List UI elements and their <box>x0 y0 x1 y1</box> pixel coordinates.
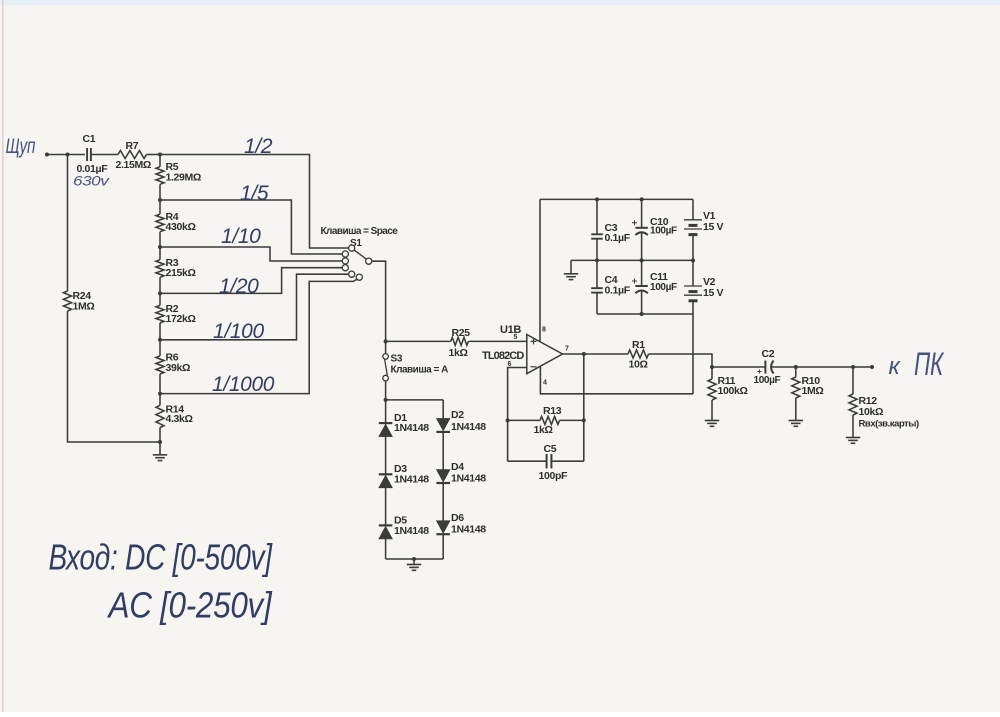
node: mid rail C11 <box>640 258 644 262</box>
wire S3 to diode network <box>385 381 387 400</box>
svg-text:4.3kΩ: 4.3kΩ <box>166 413 193 425</box>
wire R10 bottom <box>795 398 797 419</box>
svg-text:430kΩ: 430kΩ <box>166 221 196 233</box>
battery V2 <box>684 285 702 287</box>
svg-text:10Ω: 10Ω <box>629 359 648 371</box>
wire inverting input <box>508 368 527 462</box>
svg-text:ПК: ПК <box>914 346 945 382</box>
wire D4 to D6 <box>442 483 444 521</box>
svg-text:1N4148: 1N4148 <box>451 473 486 485</box>
svg-text:1/1000: 1/1000 <box>212 373 275 396</box>
svg-text:0.1µF: 0.1µF <box>605 285 631 297</box>
ground R11 <box>711 419 713 421</box>
ground power mid rail <box>570 260 572 273</box>
wire chain seg6 <box>159 374 161 405</box>
wire R13 left <box>508 419 540 421</box>
ground R12 <box>852 436 854 438</box>
resistor R1 <box>628 350 649 358</box>
wire op-amp output <box>563 353 629 355</box>
node: junction R24 tap <box>66 153 70 157</box>
node: tap 1/10 <box>158 245 162 249</box>
diode D2 <box>436 418 450 431</box>
wire tap 1/1000 <box>160 279 357 393</box>
resistor R13 <box>540 416 560 424</box>
svg-text:1kΩ: 1kΩ <box>449 347 468 359</box>
capacitor C11 <box>641 260 643 286</box>
wire pin4 to V- <box>540 366 693 393</box>
switch S3 top contact <box>383 354 389 360</box>
node: diode rail junction <box>384 398 388 402</box>
node: tap 1/5 <box>158 198 162 202</box>
diode D4 <box>436 470 450 483</box>
node: R13 right junction <box>582 418 586 422</box>
svg-text:R1: R1 <box>632 339 645 351</box>
wire node A to R25 <box>386 340 451 342</box>
node A: R25/S3 junction <box>384 339 388 343</box>
svg-text:15 V: 15 V <box>703 221 724 233</box>
wire chain seg5 <box>159 323 161 356</box>
switch S1 contact 3 (1/10) <box>342 258 348 264</box>
capacitor C3 <box>596 199 598 234</box>
svg-text:1/2: 1/2 <box>244 135 273 158</box>
svg-text:S3: S3 <box>391 354 403 365</box>
wire V2 bottom <box>692 301 694 314</box>
svg-text:630v: 630v <box>73 174 110 189</box>
capacitor C2 <box>764 361 766 374</box>
wire chain seg3 <box>159 232 161 260</box>
node: top rail C3 <box>595 197 599 201</box>
wire R11 top <box>711 367 713 379</box>
resistor R14 <box>156 405 164 427</box>
svg-text:10kΩ: 10kΩ <box>859 406 884 418</box>
svg-text:Щуп: Щуп <box>6 134 36 158</box>
svg-text:172kΩ: 172kΩ <box>166 313 196 325</box>
svg-text:39kΩ: 39kΩ <box>166 362 191 374</box>
svg-text:100kΩ: 100kΩ <box>718 385 748 397</box>
diode D5 <box>379 524 393 526</box>
switch S1 common pole <box>366 258 372 264</box>
svg-text:Rвх(зв.карты): Rвх(зв.карты) <box>859 419 919 430</box>
wire D3 to D5 <box>385 488 387 526</box>
diode D6 <box>436 521 450 534</box>
node: output feedback tap <box>582 352 586 356</box>
wire R24 branch upper <box>67 155 69 292</box>
resistor R6 <box>156 356 164 374</box>
switch S1 arm <box>354 250 366 259</box>
wire tap 1/100 <box>160 274 349 340</box>
capacitor C5 <box>508 460 547 462</box>
svg-text:100pF: 100pF <box>539 470 569 482</box>
switch S1 contact 1 (1/2) <box>349 245 355 251</box>
wire R11 bottom <box>711 400 713 419</box>
svg-text:1MΩ: 1MΩ <box>73 301 95 313</box>
svg-text:R25: R25 <box>452 327 471 339</box>
resistor R10 <box>792 377 800 398</box>
svg-text:1/10: 1/10 <box>221 225 261 248</box>
wire R10 top <box>795 367 797 377</box>
battery V1 <box>684 219 702 221</box>
svg-text:2.15MΩ: 2.15MΩ <box>116 159 152 171</box>
wire R7 to divider chain <box>147 154 161 156</box>
capacitor C4 <box>596 260 598 288</box>
wire C1 to R7 <box>91 154 118 156</box>
svg-text:1N4148: 1N4148 <box>394 474 429 486</box>
svg-text:15 V: 15 V <box>703 287 724 299</box>
svg-text:D4: D4 <box>451 461 464 473</box>
switch S1 contact 6 (1/1000) <box>356 274 362 280</box>
node: output C2/R11 <box>710 365 714 369</box>
wire tap 1/5 <box>160 200 342 254</box>
svg-text:100µF: 100µF <box>754 375 781 386</box>
op-amp U1B triangle <box>527 335 563 374</box>
svg-text:C2: C2 <box>762 348 775 360</box>
svg-text:100µF: 100µF <box>650 226 677 237</box>
svg-text:D2: D2 <box>451 409 464 421</box>
diode D3 <box>379 473 393 475</box>
wire mid rail <box>571 259 693 261</box>
resistor R4 <box>156 214 164 232</box>
wire output line <box>712 366 765 368</box>
ground below divider chain <box>159 442 161 455</box>
wire chain seg4 <box>159 277 161 305</box>
resistor R24 <box>64 291 72 311</box>
wire D1 to D3 <box>385 437 387 475</box>
diode D1 <box>379 422 393 424</box>
svg-text:0.1µF: 0.1µF <box>605 232 631 244</box>
wire feedback right leg <box>583 354 585 461</box>
wire R12 bottom <box>852 415 854 436</box>
svg-text:7: 7 <box>565 346 569 353</box>
svg-text:AC [0-250v]: AC [0-250v] <box>107 586 274 626</box>
wire V- down leg <box>692 314 694 394</box>
resistor R2 <box>156 305 164 323</box>
svg-text:C5: C5 <box>544 443 557 455</box>
wire V+ top rail <box>540 198 693 200</box>
svg-text:Клавиша = Space: Клавиша = Space <box>321 226 399 237</box>
wire node A to S3 <box>385 341 387 353</box>
resistor R7 <box>118 151 147 159</box>
svg-text:1.29MΩ: 1.29MΩ <box>166 172 202 184</box>
wire bottom rail <box>597 313 693 315</box>
switch S1 contact 4 (1/20) <box>342 265 348 271</box>
node: chain bottom junction <box>158 440 162 444</box>
capacitor C1 <box>86 148 88 161</box>
wire probe to C1 <box>47 154 85 156</box>
svg-text:1N4148: 1N4148 <box>451 524 486 536</box>
node: tap 1/1000 <box>158 392 162 396</box>
node: chain top junction <box>158 153 162 157</box>
capacitor C10 <box>641 199 643 227</box>
switch S3 arm <box>385 359 388 375</box>
wire diode bottom rail <box>386 558 444 560</box>
wire chain seg7 <box>159 428 161 443</box>
ground below diode network <box>413 559 415 565</box>
svg-text:TL082CD: TL082CD <box>482 350 524 362</box>
resistor R3 <box>156 260 164 278</box>
ground R10 <box>795 419 797 421</box>
wire V1 top <box>692 199 694 219</box>
wire tap 1/2 <box>160 155 349 249</box>
wire R25 to op-amp + <box>468 340 526 342</box>
svg-text:U1B: U1B <box>500 324 521 336</box>
svg-text:4: 4 <box>543 380 547 387</box>
svg-text:1/5: 1/5 <box>240 182 269 205</box>
resistor R11 <box>708 379 716 400</box>
wire V2 top <box>692 260 694 286</box>
svg-text:215kΩ: 215kΩ <box>166 267 196 279</box>
resistor R5 <box>156 167 164 185</box>
node: output terminal <box>870 365 874 369</box>
svg-text:1MΩ: 1MΩ <box>802 385 824 397</box>
scanner left edge line <box>2 0 4 712</box>
node: top rail C10 <box>640 197 644 201</box>
wire to D2 <box>442 400 444 419</box>
wire R13 right <box>560 419 584 421</box>
svg-text:1kΩ: 1kΩ <box>534 424 553 436</box>
svg-text:5: 5 <box>514 334 518 341</box>
resistor R25 <box>451 337 469 345</box>
wire tap 1/10 <box>160 247 342 261</box>
wire chain seg2 <box>159 184 161 214</box>
svg-text:1N4148: 1N4148 <box>394 422 429 434</box>
svg-text:1N4148: 1N4148 <box>451 421 486 433</box>
node: mid rail C3 <box>595 258 599 262</box>
wire R12 top <box>852 367 854 394</box>
svg-text:D6: D6 <box>451 512 464 524</box>
svg-text:100µF: 100µF <box>650 282 677 293</box>
svg-text:C1: C1 <box>83 133 96 145</box>
node: mid rail V1 <box>691 258 695 262</box>
svg-text:1/20: 1/20 <box>219 275 259 298</box>
node: probe input terminal <box>45 153 49 157</box>
wire to D1 <box>385 400 387 423</box>
svg-text:R7: R7 <box>126 140 139 152</box>
svg-text:1N4148: 1N4148 <box>394 525 429 537</box>
node: R13 left junction <box>506 418 510 422</box>
svg-text:R13: R13 <box>543 405 562 417</box>
svg-text:8: 8 <box>542 327 546 334</box>
wire D5 to bottom rail <box>385 539 387 559</box>
node: tap 1/100 <box>158 338 162 342</box>
wire C2 to output <box>772 366 872 368</box>
node: output R12 <box>851 365 855 369</box>
wire pin8 riser <box>539 199 541 341</box>
switch S1 contact 2 (1/5) <box>342 251 348 257</box>
wire V1 bottom <box>692 235 694 261</box>
wire chain seg1 <box>159 155 161 167</box>
node: diode ground junction <box>412 557 416 561</box>
svg-text:Вход: DC [0-500v]: Вход: DC [0-500v] <box>49 537 273 577</box>
wire diode top rail <box>386 399 444 401</box>
wire tap 1/20 <box>160 268 342 294</box>
wire S1 pole to node A <box>372 261 386 341</box>
svg-text:1/100: 1/100 <box>213 320 264 343</box>
wire R1 to output node <box>649 354 713 367</box>
wire R24 branch lower <box>68 311 161 442</box>
svg-text:Клавиша = A: Клавиша = A <box>391 365 449 376</box>
wire D2 to D4 <box>442 432 444 470</box>
switch S1 contact 5 (1/100) <box>349 271 355 277</box>
node: bottom rail C11 <box>640 312 644 316</box>
node: tap 1/20 <box>158 291 162 295</box>
scanner top edge strip <box>0 0 1000 5</box>
resistor R12 <box>849 394 857 415</box>
wire D6 to bottom rail <box>442 534 444 559</box>
node: output R10 <box>794 365 798 369</box>
switch S3 bottom contact <box>383 375 389 381</box>
